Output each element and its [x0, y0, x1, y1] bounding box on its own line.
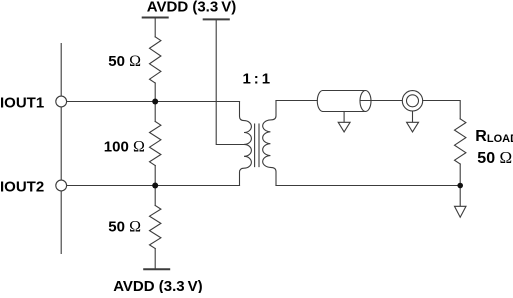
- svg-text:100 Ω: 100 Ω: [104, 138, 145, 155]
- wire AVDD bar to resistor 50 ohm top: [154, 18, 156, 37]
- svg-text:IOUT1: IOUT1: [0, 95, 44, 112]
- connector J1 inner circle: [407, 95, 419, 107]
- power AVDD (3.3 V) rail bar bottom: [144, 268, 169, 270]
- resistor 50 ohm (bottom): [154, 186, 156, 206]
- wire transformer secondary top to coax: [276, 100, 317, 102]
- terminal IOUT2: [56, 180, 67, 191]
- wire AVDD second bar down to transformer center tap: [216, 20, 244, 145]
- transformer T1 primary winding (left): [240, 102, 252, 186]
- transformer T1 core lines: [254, 124, 256, 167]
- coax cable left end arc: [317, 91, 322, 112]
- junction node IOUT2 / 100-50 ohm: [152, 183, 158, 189]
- wire bottom node to ground: [459, 186, 461, 207]
- power AVDD (3.3 V) rail bar second (center tap supply): [204, 18, 229, 20]
- resistor 50 ohm (top): [150, 37, 161, 83]
- terminal IOUT1: [56, 96, 67, 107]
- svg-text:1 : 1: 1 : 1: [242, 70, 270, 87]
- resistor 100 ohm (middle): [154, 102, 156, 122]
- svg-text:AVDD (3.3 V): AVDD (3.3 V): [147, 0, 236, 16]
- svg-text:50 Ω: 50 Ω: [108, 219, 141, 236]
- wire coax shield to ground: [343, 112, 345, 123]
- coax cable right end ellipse: [360, 91, 371, 112]
- svg-text:IOUT2: IOUT2: [0, 179, 44, 196]
- wire resistor 50 ohm bottom to AVDD bar bottom: [154, 249, 156, 270]
- junction node load bottom: [457, 183, 463, 189]
- svg-text:50 Ω: 50 Ω: [108, 53, 141, 70]
- wire connector to ground: [412, 111, 414, 122]
- transformer T1 secondary winding (right): [263, 101, 276, 186]
- ground (connector shell): [407, 122, 419, 132]
- power AVDD (3.3 V) rail bar left: [143, 17, 168, 19]
- ground (load return): [455, 206, 467, 217]
- coax cable shield body: [323, 91, 366, 112]
- resistor RLOAD 50 ohm: [455, 119, 466, 164]
- svg-text:AVDD (3.3 V): AVDD (3.3 V): [113, 278, 202, 293]
- wire connector to load resistor: [423, 101, 461, 119]
- wire transformer secondary bottom to load: [276, 185, 460, 187]
- wire IOUT2 net horizontal: [67, 185, 240, 187]
- wire IOUT1 net horizontal: [67, 101, 240, 103]
- wire left vertical input bus: [60, 44, 62, 254]
- connector J1 outer circle: [402, 91, 422, 111]
- wire RLOAD to bottom node: [459, 164, 461, 186]
- wire coax center conductor to connector: [360, 100, 402, 102]
- junction node IOUT1 / 50-100 ohm: [152, 99, 158, 105]
- ground (coax shield): [338, 122, 350, 132]
- wire resistor 50 ohm top to IOUT1 node: [154, 83, 156, 102]
- svg-text:50 Ω: 50 Ω: [477, 148, 512, 167]
